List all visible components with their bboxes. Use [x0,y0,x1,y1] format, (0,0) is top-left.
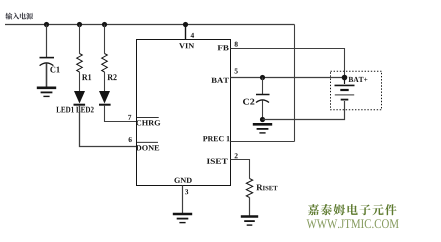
pin name BAT [211,78,229,83]
ground (below C1) [37,88,56,97]
wire: GND pin to ground [182,186,184,214]
watermark WWW.JTMIC.COM [307,219,399,228]
pin name PREC 1 [203,136,230,141]
wire: FB pin to battery + [231,49,345,77]
wire: ground node to battery - [263,101,345,120]
ground (below GND pin) [173,214,192,223]
wire: R1 to LED1 [79,72,81,91]
junction: R1 tap [77,22,82,27]
wire: C1 to ground [46,63,48,87]
capacitor C1 (polarized) [40,58,60,73]
wire: R2 to LED2 [104,72,106,91]
pin name VIN [179,43,194,48]
watermark 嘉泰姆电子元件 [308,204,397,215]
resistor RISET [246,179,277,198]
wire: rail to R1 [79,25,81,54]
label LED1 LED2 [56,107,93,113]
wire: rail drop on right to PREC [294,25,296,142]
pin 7 number [128,115,131,120]
junction: R2 tap [102,22,107,27]
wire: LED2 to CHRG pin [105,106,137,122]
wire: BAT net to C2 [262,78,264,95]
wire: top power rail [5,24,295,26]
pin name CHRG with overline [136,117,160,125]
ground (below C2) [253,124,272,133]
wire: LED1 to DONE pin [80,106,137,147]
wire: PREC pin to rail drop [231,141,295,143]
battery BAT+ connector (dashed box) [331,71,382,110]
LED LED1 [74,91,86,105]
wire: rail to R2 [104,25,106,54]
wire: RISET to ground [249,198,251,217]
pin 4 number [191,33,194,38]
junction: C2 / battery- node [260,117,265,122]
pin 2 number [235,153,238,158]
pin 8 number [235,42,238,47]
wire: ISET pin to RISET [231,160,250,179]
pin name GND [174,178,191,183]
wire: rail to VIN pin [185,25,187,40]
junction: C1 tap [44,22,49,27]
charger IC U1 body [137,40,231,186]
wire: BAT pin to battery + [231,77,345,79]
capacitor C2 (polarized) [243,95,270,105]
pin name FB [218,45,229,50]
resistor R1 [77,54,91,81]
resistor R2 [102,54,117,81]
pin name ISET [207,159,228,164]
pin 3 number [185,189,188,194]
pin 6 number [129,137,132,142]
LED LED2 [99,91,111,105]
junction: VIN tap [183,22,188,27]
junction: C2 tap on BAT net [260,75,265,80]
pin name DONE with overline [136,142,159,150]
wire: C2 to ground junction [262,100,264,119]
wire: rail to C1 [46,25,48,58]
pin 5 number [235,69,238,74]
net label 输入电源 (input power) [5,13,33,20]
ground (below RISET) [241,217,258,226]
